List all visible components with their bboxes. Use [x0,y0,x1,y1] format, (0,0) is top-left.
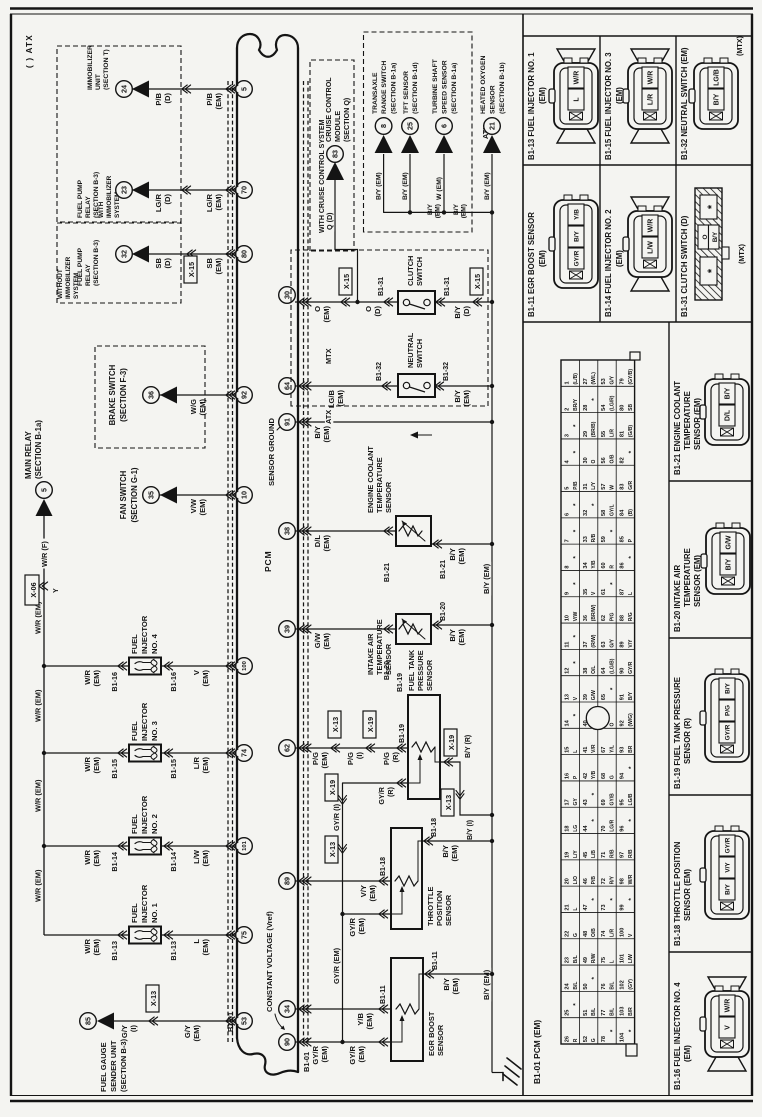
svg-text:NEUTRAL: NEUTRAL [406,332,415,368]
connector chevrons and label B1-18 exit [424,818,438,845]
svg-text:B1-14 FUEL INJECTOR NO. 2: B1-14 FUEL INJECTOR NO. 2 [604,209,613,317]
svg-text:TEMPERATURE: TEMPERATURE [683,548,692,607]
svg-text:Y/B: Y/B [591,560,597,569]
svg-text:B/R: B/R [628,1007,634,1016]
svg-text:Y/B: Y/B [356,1012,365,1025]
dashed box WITH IMMOBILIZER SYSTEM [57,46,181,222]
label B/Y (EM) [402,172,409,200]
PCM pin 74 (top edge) [236,745,253,762]
svg-text:10: 10 [564,615,570,621]
label B/Y (EM) TPS return [441,845,459,862]
svg-text:GY/R: GY/R [725,724,732,740]
svg-text:O/B: O/B [610,454,616,463]
svg-text:B1-16: B1-16 [169,672,178,692]
svg-text:45: 45 [583,852,589,858]
connector cell B1-14 FUEL INJECTOR NO. 2 [604,197,672,317]
svg-text:(D): (D) [373,306,382,317]
svg-text:71: 71 [601,852,607,858]
shield crossing chevrons pin 30 [299,298,311,306]
svg-text:(EM): (EM) [320,752,329,769]
svg-text:62: 62 [283,744,292,752]
svg-text:B/Y (EM): B/Y (EM) [402,172,409,200]
svg-text:101: 101 [242,840,248,851]
label GY/R (EM) to EGR sensor [348,1045,366,1064]
label P/G (EM) [311,752,329,769]
svg-text:L/R: L/R [610,429,616,437]
svg-text:B/Y (EM): B/Y (EM) [482,563,491,594]
label B/Y (EM) on ground bus left [482,968,491,1002]
svg-text:54: 54 [601,404,607,411]
svg-text:(D): (D) [163,258,172,269]
svg-text:LG/R: LG/R [154,193,163,212]
shield crossing chevrons pin 89 [299,877,311,885]
connector cell B1-20 INTAKE AIR TEMPERATURE SENSOR [673,523,750,632]
wire pin 80 to fuel pump relay [132,253,236,255]
svg-text:5: 5 [564,487,570,490]
svg-text:B1-15: B1-15 [169,759,178,779]
svg-text:94: 94 [620,772,626,779]
svg-text:CRUISE CONTROL: CRUISE CONTROL [324,77,333,142]
wire B/Y riser for ATX sensors [384,210,495,214]
arrow to immobilizer unit [132,81,149,98]
svg-text:B1-32: B1-32 [443,362,450,381]
svg-text:FUEL: FUEL [130,721,139,741]
label B/Y (EM) EGR return [442,978,460,995]
svg-text:B/Y: B/Y [448,629,457,642]
svg-text:6: 6 [564,513,570,516]
svg-text:35: 35 [583,589,589,595]
svg-text:61: 61 [601,589,607,595]
label B/Y (EM) pin 91 [313,426,331,443]
svg-text:64: 64 [283,382,292,390]
connector chevron X-13 pin 62 [331,744,340,752]
wire W/R trunk for injectors [43,588,45,935]
svg-text:B1-13: B1-13 [169,941,178,961]
label NEUTRAL SWITCH [406,332,424,368]
label B/Y (EM) on ground bus right [482,562,491,596]
svg-text:(SECTION B-1a): (SECTION B-1a) [34,420,43,479]
svg-text:POSITION: POSITION [435,891,444,926]
svg-text:W/R: W/R [648,71,655,85]
svg-text:B1-21: B1-21 [384,563,391,582]
label W/G (EM) [189,399,207,416]
label GY/R (R) [377,786,395,804]
circuit ref circle 85 fuel gauge [80,1013,97,1030]
svg-text:(I): (I) [129,1025,138,1033]
svg-text:MTX: MTX [324,348,333,364]
label WITHOUT IMMOBILIZER SYSTEM [57,256,80,299]
connector chevron and label B1-13 above injector [110,931,127,961]
label W (EM) [436,177,443,200]
label LG/B (EM) [327,389,345,408]
svg-text:W (EM): W (EM) [436,177,443,200]
label W/R (F) [40,539,49,569]
svg-text:(SECTION F-3): (SECTION F-3) [119,368,128,422]
label FUEL PUMP RELAY (SECTION B-3) without-immobilizer [77,240,100,286]
shield crossing chevrons pin 91 [299,418,311,426]
svg-text:B/Y: B/Y [725,883,732,894]
svg-text:GY/R: GY/R [348,917,357,936]
svg-text:(I): (I) [355,752,364,760]
connector chevrons and label B1-19 entry [397,724,406,752]
wire fuel gauge branch pin 53 [114,1020,236,1022]
svg-text:B1-13: B1-13 [110,941,119,961]
svg-text:88: 88 [620,615,626,621]
PCM 104-pin connector grid [561,352,640,1056]
svg-text:98: 98 [620,878,626,884]
svg-text:21: 21 [488,122,497,130]
svg-text:31: 31 [583,484,589,490]
svg-text:(W/L): (W/L) [591,372,597,385]
svg-text:102: 102 [620,980,626,989]
svg-text:G/Y: G/Y [120,1025,129,1038]
svg-text:X-13: X-13 [149,991,158,1006]
svg-text:GY/R: GY/R [311,1045,320,1064]
connector box X-13 fuel gauge [146,985,159,1012]
svg-text:68: 68 [601,773,607,779]
svg-text:W/G: W/G [189,399,198,414]
svg-text:X-13: X-13 [444,795,453,810]
wire pin 38 D/L to ECT sensor [295,530,396,532]
arrow to circuit ref 25 [401,135,419,153]
label B1-01 top-left [226,1012,235,1032]
svg-text:(EM): (EM) [365,1013,374,1030]
wire pin 62 P/G to fuel tank pressure sensor [295,747,408,749]
PCM band right end curl [237,34,298,57]
svg-text:100: 100 [620,928,626,937]
svg-text:96: 96 [620,826,626,832]
svg-text:W/R: W/R [725,999,732,1013]
svg-text:35: 35 [147,491,156,499]
svg-text:91: 91 [283,418,292,426]
svg-text:(EM): (EM) [322,535,331,552]
svg-text:NO. 4: NO. 4 [150,633,159,654]
label THROTTLE POSITION SENSOR [426,887,453,926]
svg-text:104: 104 [620,1032,626,1042]
svg-text:42: 42 [583,773,589,779]
svg-text:58: 58 [601,510,607,516]
svg-text:B/Y: B/Y [712,231,719,242]
svg-text:LG/B: LG/B [714,69,721,86]
svg-text:(EM): (EM) [683,1045,692,1062]
connector chevron and label B1-14 below injector [164,842,178,872]
svg-text:14: 14 [564,719,570,726]
label B/Y (R) [465,735,472,758]
svg-text:36: 36 [147,391,156,399]
svg-text:95: 95 [620,799,626,805]
svg-text:SENSOR: SENSOR [444,894,453,926]
label B/Y (EM) IAT return [448,629,466,646]
label V/W (EM) [189,498,207,515]
label W/R (EM) on trunk [34,601,43,634]
label IMMOBILIZER UNIT (SECTION T) [87,45,110,90]
svg-text:(B): (B) [628,509,634,516]
arrow to brake switch [160,387,177,404]
svg-text:R/Y: R/Y [610,875,616,884]
svg-text:Y: Y [51,588,60,593]
svg-text:59: 59 [601,536,607,542]
svg-text:ATX: ATX [324,410,333,424]
svg-text:O: O [313,306,322,312]
svg-text:27: 27 [583,378,589,384]
svg-text:NO. 3: NO. 3 [150,721,159,741]
svg-text:41: 41 [583,747,589,753]
dashed box WITH CRUISE CONTROL SYSTEM [310,60,354,251]
svg-text:47: 47 [583,904,589,910]
svg-text:8: 8 [379,124,388,128]
svg-text:84: 84 [620,509,626,516]
connector chevrons and label B1-20 exit [433,602,447,629]
svg-text:B1-31: B1-31 [378,277,385,296]
svg-text:(L/B): (L/B) [573,373,579,385]
label TFT SENSOR [403,62,419,114]
svg-text:W/R: W/R [83,669,92,684]
connector chevrons and label B1-21 entry [384,527,393,582]
svg-text:FUEL: FUEL [130,634,139,654]
wire clutch switch B/Y return [435,300,494,304]
svg-text:(EM): (EM) [336,390,345,407]
svg-text:W/R: W/R [83,938,92,953]
label L (EM) wire color [192,939,210,956]
svg-text:85: 85 [84,1017,93,1025]
svg-text:L/R: L/R [610,929,616,937]
label W/R (EM) branch B1-15 [83,756,101,773]
label P/G (I) [346,752,364,766]
svg-text:P/G: P/G [610,613,616,622]
label FUEL INJECTOR NO. 4 [130,615,159,654]
svg-text:R/B: R/B [628,849,634,858]
label BRAKE SWITCH (SECTION F-3) [108,364,128,425]
svg-text:56: 56 [601,457,607,463]
shield crossing chevrons pin 64 [299,382,311,390]
wire to circuit ref 21 [491,154,493,212]
svg-text:70: 70 [601,826,607,832]
connector chevrons and label B1-32 entry [376,362,391,390]
svg-text:(SECTION B-1b): (SECTION B-1b) [499,62,506,114]
svg-text:B/Y: B/Y [453,203,460,215]
svg-text:X-19: X-19 [366,717,375,732]
svg-text:8: 8 [564,566,570,569]
svg-text:78: 78 [601,1036,607,1042]
svg-text:INJECTOR: INJECTOR [140,615,149,654]
wire B/Y (R) return from fuel tank pressure sensor [440,762,494,817]
connector cell B1-32 NEUTRAL SWITCH [680,35,744,160]
svg-text:GY/B: GY/B [610,793,616,806]
label ATX near dashed boxes [324,410,333,426]
svg-text:(EM): (EM) [538,250,547,267]
svg-text:28: 28 [583,405,589,411]
connector chevron and label B1-13 below injector [164,931,178,961]
svg-text:70: 70 [240,186,249,194]
svg-text:P/B: P/B [205,92,214,105]
svg-text:BRAKE SWITCH: BRAKE SWITCH [108,364,117,425]
svg-text:55: 55 [601,431,607,437]
strip boundary lines [523,14,752,1096]
svg-text:32: 32 [583,510,589,516]
shield crossing chevrons pin 90 [299,1038,311,1046]
svg-text:92: 92 [620,720,626,726]
label V/Y (EM) [359,885,377,902]
svg-text:R/B: R/B [610,849,616,858]
arrow to cruise control module [326,162,344,180]
svg-text:MAIN RELAY: MAIN RELAY [24,430,33,479]
label TURBINE SHAFT [432,58,458,114]
svg-text:INJECTOR: INJECTOR [140,884,149,923]
svg-text:B/L: B/L [610,982,616,990]
svg-text:UNIT: UNIT [95,73,102,90]
connector chevrons and label B1-20 entry [384,625,393,680]
label GY/R (EM) pin 90 [311,1045,329,1064]
shield crossing chevrons B1-14 [226,842,238,850]
svg-text:O: O [364,306,373,312]
svg-text:(EM): (EM) [92,670,101,687]
label G/Y (EM) [183,1025,201,1042]
PCM shield dashed lines bottom [304,80,309,1042]
svg-text:W/R (EM): W/R (EM) [34,869,43,902]
svg-text:38: 38 [283,527,292,535]
connector chevrons and label B1-11 exit [425,951,439,978]
label PCM [263,551,273,573]
svg-text:90: 90 [620,668,626,674]
svg-text:30: 30 [583,457,589,463]
label G/Y (I) [120,1025,138,1039]
svg-text:(D): (D) [163,93,172,104]
svg-text:P/G: P/G [311,752,320,765]
svg-text:72: 72 [601,878,607,884]
svg-text:L/Y: L/Y [573,850,579,858]
svg-text:(SECTION B-1a): (SECTION B-1a) [391,63,398,114]
svg-text:NO. 2: NO. 2 [150,814,159,834]
svg-text:91: 91 [620,694,626,700]
label INTAKE AIR TEMPERATURE SENSOR [366,619,393,675]
svg-text:G/Y: G/Y [610,638,616,647]
label W/R (EM) on trunk [34,779,43,812]
svg-text:(MTX): (MTX) [737,243,746,264]
svg-text:L/Y: L/Y [591,481,597,489]
svg-text:11: 11 [564,642,570,648]
svg-text:EGR BOOST: EGR BOOST [427,1011,436,1056]
svg-text:B1-32 NEUTRAL SWITCH (EM): B1-32 NEUTRAL SWITCH (EM) [680,47,689,160]
shield crossing chevrons pin 80 [226,250,238,258]
svg-text:R/B: R/B [591,533,597,542]
label P/B (EM) [205,92,223,109]
svg-text:B/Y (EM): B/Y (EM) [484,172,491,200]
label LG/R (D) [154,193,172,212]
svg-text:(EM): (EM) [368,885,377,902]
svg-text:74: 74 [601,930,607,937]
svg-text:82: 82 [620,457,626,463]
label W/R (EM) branch B1-14 [83,849,101,866]
svg-text:79: 79 [620,378,626,384]
svg-text:G/Y: G/Y [610,375,616,384]
svg-text:39: 39 [283,625,292,633]
svg-text:B/Y (I): B/Y (I) [467,820,474,840]
circuit ref circle 36 brake switch [143,387,160,404]
svg-text:GY/L: GY/L [610,504,616,516]
svg-text:LG/B: LG/B [327,389,336,408]
EGR boost sensor B1-11 box with resistor [391,958,423,1061]
svg-text:GY/R: GY/R [574,250,581,266]
svg-text:W/R: W/R [648,219,655,233]
label Q (D) [325,210,334,232]
label GY/R (EM) TPS [348,917,366,936]
svg-text:W/R: W/R [83,756,92,771]
svg-text:L/W: L/W [648,241,655,254]
svg-text:THROTTLE: THROTTLE [426,887,435,926]
svg-text:LG/R: LG/R [610,819,616,831]
svg-text:FUEL PUMP: FUEL PUMP [77,179,84,218]
svg-text:B1-15 FUEL INJECTOR NO. 3: B1-15 FUEL INJECTOR NO. 3 [604,52,613,160]
wire to circuit ref 8 [383,154,385,212]
PCM pin 62 (bottom edge) [279,740,296,757]
svg-text:(EM): (EM) [615,250,624,267]
connector chevron and label B1-16 above injector [110,662,127,692]
PCM pin 53 (top edge) [236,1013,253,1030]
svg-text:B1-19: B1-19 [399,724,406,743]
connector box X-19 Vref trunk [325,774,338,801]
svg-text:26: 26 [564,1036,570,1042]
PCM pin 64 (bottom edge) [279,378,296,395]
shield crossing chevrons B1-13 [226,931,238,939]
PCM pin 101 (top edge) [236,838,253,855]
svg-text:V: V [725,1025,732,1030]
svg-text:R/G: R/G [628,612,634,621]
svg-text:V/W: V/W [573,612,579,622]
wire pin 5 to immobilizer unit [132,88,236,90]
PCM band left end squiggle [237,1038,298,1075]
svg-text:(EM): (EM) [538,87,547,104]
label B/Y (I) [467,820,474,840]
svg-text:SENDER UNIT: SENDER UNIT [109,1040,118,1092]
PCM pin 39 (bottom edge) [279,621,296,638]
svg-text:36: 36 [583,615,589,621]
circuit ref circle 32 [116,246,133,263]
svg-text:19: 19 [564,852,570,858]
svg-text:B1-11 EGR BOOST SENSOR: B1-11 EGR BOOST SENSOR [527,212,536,317]
label TRANSAXLE [372,61,398,114]
connector chevrons and label B1-31 entry [378,277,393,306]
label GY/R (I) on Vref trunk [332,803,341,831]
svg-text:GY/R (I): GY/R (I) [332,803,341,831]
wire GY/R (R) into fuel tank pressure sensor [343,782,409,784]
svg-text:6: 6 [440,124,449,128]
svg-text:44: 44 [583,825,589,832]
svg-text:32: 32 [120,250,129,258]
label V (EM) wire color [192,669,210,686]
svg-text:GY/R: GY/R [348,1045,357,1064]
svg-text:90: 90 [283,1038,292,1046]
svg-text:73: 73 [601,904,607,910]
label D/L (EM) [313,535,331,552]
wire ECT B/Y return [431,542,494,546]
connector chevron X-06 with Y label [39,582,60,593]
svg-text:7: 7 [564,539,570,542]
svg-text:(SECTION T): (SECTION T) [103,49,110,90]
shield crossing chevrons pin 34 [299,1005,311,1013]
svg-text:50: 50 [583,983,589,989]
svg-text:74: 74 [240,749,249,757]
label CONSTANT VOLTAGE (Vref) with leader [265,911,285,1030]
PCM pin 10 (top edge) [236,487,253,504]
label MTX on dashed box [324,348,333,365]
PCM pin 75 (top edge) [236,927,253,944]
svg-text:( ) ATX: ( ) ATX [25,34,34,68]
svg-text:TEMPERATURE: TEMPERATURE [683,391,692,450]
svg-text:SENSOR: SENSOR [425,659,434,691]
svg-text:B1-14: B1-14 [110,852,119,872]
svg-text:SB: SB [628,403,634,410]
svg-text:93: 93 [620,747,626,753]
